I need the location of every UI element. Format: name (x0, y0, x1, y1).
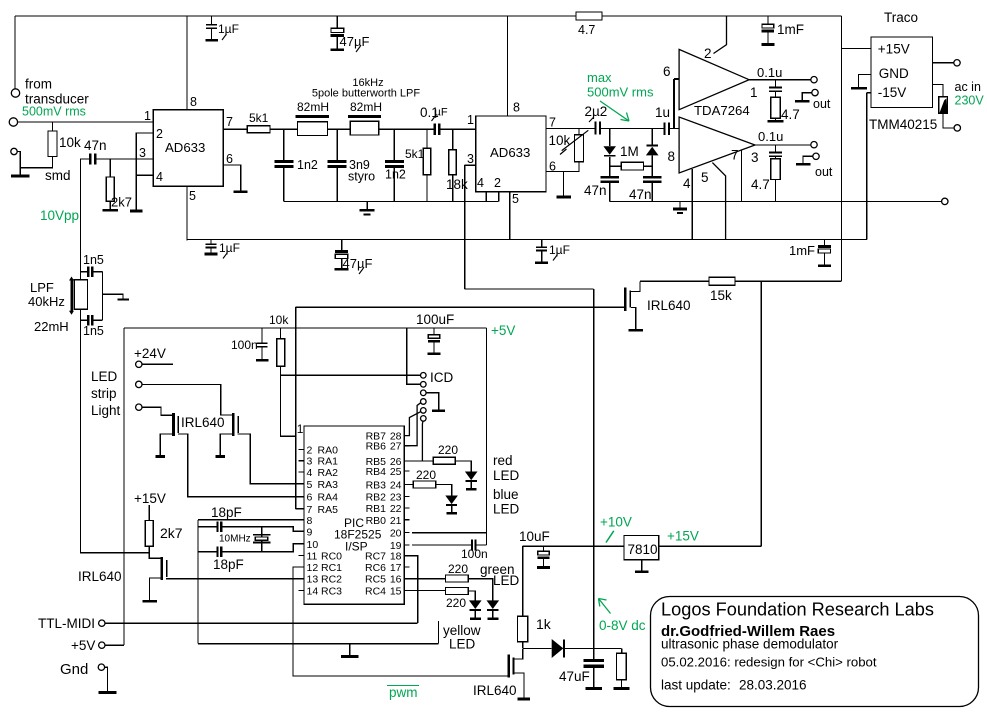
op-amp TDA7264 channel B (679, 117, 755, 173)
svg-text:4: 4 (683, 176, 691, 191)
terminal ground rail (942, 198, 948, 204)
svg-text:RC1: RC1 (321, 562, 342, 574)
pin 15 PIC right (404, 589, 409, 591)
svg-text:LED: LED (493, 502, 520, 517)
connector ICD pin6 (421, 416, 427, 422)
diode D1 demod (609, 129, 611, 147)
pin 4 PIC left (299, 471, 304, 473)
resistor pwm load (621, 648, 623, 653)
wire +15V to 7810 branch (760, 281, 762, 546)
svg-text:RB1: RB1 (366, 503, 387, 515)
svg-text:16: 16 (390, 574, 402, 586)
wire MCLR net line (296, 306, 624, 308)
svg-text:Logos Foundation Research Labs: Logos Foundation Research Labs (661, 600, 934, 620)
connector ICD pin2 (421, 382, 427, 388)
svg-text:10k: 10k (269, 313, 289, 327)
resistor 4.7 zobel 2 (771, 159, 780, 180)
pin 28 PIC right (404, 435, 409, 437)
svg-text:1mF: 1mF (777, 22, 804, 37)
pin 23 PIC right (404, 496, 409, 498)
capacitor 2u2 coupling (579, 128, 594, 130)
svg-text:100n: 100n (231, 338, 258, 352)
svg-text:IRL640: IRL640 (647, 298, 691, 313)
resistor 15k (709, 277, 735, 285)
svg-text:0.1u: 0.1u (758, 129, 783, 144)
terminal input 500mV (9, 118, 17, 126)
ground 7810 (641, 560, 643, 571)
wire 7810 out +15V (659, 545, 761, 547)
terminal LED strip 3 (136, 404, 142, 410)
capacitor 3n9 styro shunt (336, 129, 338, 160)
capacitor 1n2 shunt 1 (283, 129, 285, 160)
ground LPF40k tap (102, 294, 123, 298)
terminal ac in 1 (954, 60, 960, 66)
svg-text:7: 7 (549, 116, 556, 130)
svg-text:RC5: RC5 (365, 574, 386, 586)
svg-text:23: 23 (390, 492, 402, 504)
capacitor 100uF +5V (433, 328, 435, 335)
capacitor 1mF rail decoupling (823, 239, 825, 245)
svg-text:RA3: RA3 (318, 479, 339, 491)
connector ICD pin1 (421, 373, 427, 379)
wire +5V right edge (412, 328, 486, 545)
wire +15V top rail left segment (15, 15, 576, 17)
wire drain rail to 15k (640, 280, 709, 282)
svg-text:220: 220 (448, 562, 468, 576)
svg-text:2: 2 (307, 444, 313, 456)
inductor 82mH 1 (296, 115, 330, 118)
ground LPF rail (366, 201, 368, 209)
transistor Q5 IRL640 pwm (507, 655, 510, 678)
svg-text:8: 8 (513, 101, 520, 115)
wire demod node (601, 128, 663, 130)
capacitor 1uF rail decoupling 1 (210, 239, 212, 243)
resistor 220 blue LED (404, 483, 413, 485)
pin 20 PIC right (404, 532, 409, 534)
capacitor 47n demod 2 (643, 176, 662, 178)
svg-text:RC6: RC6 (365, 562, 386, 574)
wire AD633#1 pin5 to -15V rail (186, 186, 188, 240)
wire MCLR vertical (296, 307, 304, 509)
capacitor 100n Vss (412, 544, 471, 546)
pin 24 PIC right (404, 483, 409, 485)
svg-text:10MHz: 10MHz (219, 534, 251, 545)
svg-text:47n: 47n (584, 183, 607, 198)
wire Traco -15V drop (866, 93, 868, 240)
wire AD633#1 pin8 to +15V rail (186, 16, 188, 110)
wire Traco ac out right (933, 62, 954, 64)
svg-text:RC4: RC4 (365, 585, 386, 597)
terminal Gnd (98, 664, 104, 670)
svg-text:2k7: 2k7 (111, 195, 132, 210)
svg-text:100n: 100n (461, 547, 488, 561)
inductor 22mH LPF 40kHz (70, 279, 73, 312)
svg-text:ICD: ICD (430, 370, 454, 385)
terminal LED strip 2 (136, 381, 142, 387)
potentiometer 10k level (546, 129, 579, 135)
svg-text:11: 11 (307, 551, 318, 563)
svg-text:-15V: -15V (878, 85, 907, 100)
svg-text:RA1: RA1 (318, 456, 339, 468)
ground Traco GND (859, 74, 872, 87)
wire TDA pin6 input (674, 79, 679, 129)
svg-text:+15V: +15V (667, 529, 699, 544)
pin 2 PIC left (299, 448, 304, 450)
ground mid run (349, 644, 351, 655)
resistor 2k7 input bias (109, 159, 111, 177)
svg-text:+24V: +24V (134, 346, 166, 361)
pin 6 PIC left (299, 496, 304, 498)
svg-text:LED: LED (91, 369, 118, 384)
svg-text:22mH: 22mH (34, 319, 69, 334)
svg-text:17: 17 (390, 562, 402, 574)
capacitor 1uF top rail decoupling (211, 16, 213, 24)
pin 27 PIC right (404, 445, 409, 447)
pin 18 PIC right (404, 555, 409, 557)
pin 9 PIC left (299, 530, 304, 532)
svg-text:red: red (493, 453, 513, 468)
pin 3 PIC left (299, 460, 304, 462)
terminal +24V (136, 361, 142, 367)
led yellow (469, 600, 482, 609)
svg-text:1µF: 1µF (218, 22, 239, 36)
svg-text:1: 1 (750, 85, 758, 100)
svg-text:4: 4 (477, 176, 484, 190)
svg-text:500mV rms: 500mV rms (587, 85, 654, 100)
wire Traco -15V out (867, 92, 871, 94)
svg-text:100uF: 100uF (416, 312, 454, 327)
resistor 4.7 zobel 1 (771, 97, 780, 118)
resistor 5k1 shunt (426, 129, 428, 148)
svg-text:4: 4 (156, 170, 163, 184)
svg-text:IRL640: IRL640 (78, 569, 122, 584)
svg-text:2µ2: 2µ2 (585, 104, 608, 119)
svg-text:24: 24 (390, 479, 402, 491)
ground pin6 AD633#2 (556, 196, 571, 199)
resistor 10k pullup (280, 328, 282, 339)
svg-text:Traco: Traco (884, 10, 918, 25)
wire TDA out2 (755, 144, 811, 146)
svg-text:1mF: 1mF (789, 243, 815, 258)
svg-text:6: 6 (226, 152, 233, 166)
svg-text:LED: LED (449, 637, 476, 652)
wire -15V rail (187, 238, 867, 240)
pin 26 PIC right (404, 460, 409, 462)
svg-text:2: 2 (704, 46, 712, 61)
svg-text:20: 20 (390, 528, 402, 540)
svg-text:47uF: 47uF (559, 669, 590, 684)
svg-text:12: 12 (307, 562, 319, 574)
svg-text:AD633: AD633 (165, 140, 205, 155)
svg-text:2: 2 (494, 176, 501, 190)
svg-text:ultrasonic phase demodulator: ultrasonic phase demodulator (661, 637, 839, 652)
wire LPF main line (270, 128, 434, 130)
led blue (445, 496, 458, 505)
diode D2 demod (651, 129, 653, 145)
svg-text:8: 8 (307, 515, 313, 527)
ground AD633#1 pin6 (234, 191, 248, 194)
svg-text:15: 15 (390, 585, 402, 597)
svg-text:10k: 10k (549, 133, 571, 148)
svg-text:10: 10 (307, 539, 319, 551)
svg-text:1u: 1u (655, 105, 670, 120)
wire AD633#2 pin6 ground (546, 172, 564, 196)
svg-text:6: 6 (663, 64, 671, 79)
svg-text:RB0: RB0 (366, 515, 387, 527)
svg-text:10k: 10k (59, 135, 81, 150)
svg-text:TTL-MIDI: TTL-MIDI (38, 616, 95, 631)
capacitor 47uF top rail decoupling (336, 16, 338, 28)
svg-text:18: 18 (390, 551, 402, 563)
svg-text:styro: styro (348, 170, 375, 184)
crystal 10MHz (261, 527, 263, 552)
capacitor 1u coupling to TDA (663, 122, 665, 135)
capacitor 18pF 2 (198, 551, 216, 553)
svg-text:max: max (587, 70, 612, 85)
wire AD633#2 pin5 to -15V rail (509, 192, 511, 240)
terminal smd ground (11, 148, 17, 154)
power supply Traco TMM40215 (871, 37, 933, 108)
svg-text:4: 4 (307, 467, 313, 479)
svg-text:18pF: 18pF (213, 557, 244, 572)
wire LPF ground rail (284, 200, 499, 202)
led green (487, 600, 500, 609)
svg-text:µF: µF (435, 107, 448, 119)
capacitor 100n MCLR (261, 328, 263, 342)
resistor 5k1 series (247, 126, 270, 133)
wire ground rail right (610, 200, 942, 202)
diode D3 pwm (523, 647, 552, 649)
svg-text:230V: 230V (955, 94, 985, 108)
wire pin12 to pwm gate (293, 567, 507, 676)
ground 2k7 (103, 209, 118, 212)
svg-text:2k7: 2k7 (160, 525, 183, 541)
svg-text:18pF: 18pF (211, 505, 242, 520)
svg-text:15k: 15k (710, 288, 732, 303)
pin 11 PIC left (299, 555, 304, 557)
svg-text:13: 13 (307, 574, 319, 586)
svg-text:10uF: 10uF (519, 529, 550, 544)
capacitor 47n input (81, 158, 90, 160)
resistor 1k pwm (522, 546, 524, 616)
pin 19 PIC right (404, 544, 409, 546)
svg-text:LED: LED (493, 573, 520, 588)
svg-text:Light: Light (91, 403, 121, 418)
svg-text:5pole butterworth LPF: 5pole butterworth LPF (312, 88, 421, 100)
connector ICD pin4 (421, 399, 427, 405)
pin 5 PIC left (299, 483, 304, 485)
svg-text:40kHz: 40kHz (28, 294, 65, 309)
wire +15V drop from top rail (841, 16, 843, 281)
wire demod line to 0-8V node (465, 288, 594, 290)
capacitor 47n demod 1 (601, 176, 620, 178)
svg-text:0-8V dc: 0-8V dc (599, 618, 646, 633)
svg-text:1µF: 1µF (219, 241, 240, 255)
svg-text:5k1: 5k1 (405, 147, 425, 161)
wire crystal left drop (197, 520, 199, 644)
svg-text:from: from (25, 77, 52, 92)
wire ac in to fuse (933, 84, 944, 96)
wire TDA pin5 to -15V rail (712, 163, 725, 240)
pin 14 PIC left (299, 589, 304, 591)
resistor 4.7 in top rail (576, 12, 602, 20)
wire PIC pin8 Vss (198, 519, 304, 521)
svg-text:RC0: RC0 (321, 551, 342, 563)
resistor 18k shunt (452, 129, 454, 149)
wire TDA out1 (749, 79, 811, 81)
ground rail symbol (679, 201, 681, 207)
svg-text:RA4: RA4 (318, 492, 339, 504)
svg-text:RC7: RC7 (365, 551, 386, 563)
capacitor 0.1uF coupling (434, 124, 436, 136)
pin 16 PIC right (404, 578, 409, 580)
svg-text:TDA7264: TDA7264 (694, 103, 750, 118)
svg-text:+5V: +5V (71, 638, 95, 653)
ground zobel 1 (767, 120, 783, 123)
wire AD633#1 pin7 to 5k1 (223, 128, 247, 130)
connector ICD pin5 (421, 408, 427, 414)
arrow to demod node (600, 101, 629, 121)
ground Gnd terminal (98, 691, 116, 694)
svg-text:5: 5 (512, 192, 519, 206)
svg-text:strip: strip (91, 386, 117, 401)
svg-text:4.7: 4.7 (781, 107, 800, 122)
terminal +5V in (99, 642, 105, 648)
svg-text:3: 3 (307, 456, 313, 468)
wire input to AD633 pin1 (18, 121, 154, 123)
capacitor 0.1u zobel 2 (774, 145, 776, 152)
terminal out1 gnd (812, 89, 818, 95)
svg-text:7: 7 (731, 148, 739, 163)
inductor 82mH 2 (348, 115, 381, 118)
svg-text:21: 21 (390, 515, 402, 527)
capacitor 1n5 upper (81, 271, 88, 273)
svg-text:5k1: 5k1 (249, 111, 269, 125)
svg-text:2: 2 (156, 127, 163, 141)
svg-text:0.1u: 0.1u (757, 65, 782, 80)
wire AD633#2 pin3 down to demod line (464, 165, 466, 289)
svg-text:220: 220 (416, 468, 436, 482)
wire 1n5 link (101, 272, 103, 321)
wire Traco +15V to rail (842, 47, 872, 49)
pin 13 PIC left (299, 578, 304, 580)
svg-text:27: 27 (390, 441, 402, 453)
svg-text:82mH: 82mH (350, 100, 382, 114)
wire AD633#1 pins 2-4 tie (136, 133, 153, 210)
wire ICD MCLR (281, 374, 421, 376)
capacitor 1n2 shunt 2 (393, 129, 395, 160)
svg-text:RB4: RB4 (366, 466, 387, 478)
pin 7 PIC left (299, 508, 304, 510)
svg-text:47n: 47n (629, 187, 652, 202)
svg-text:RC2: RC2 (321, 574, 342, 586)
wire demod 0-8V vertical (593, 289, 595, 659)
wire +10V rail to 7810 (523, 545, 624, 547)
svg-text:Gnd: Gnd (60, 661, 88, 678)
svg-text:RA0: RA0 (318, 444, 339, 456)
svg-text:+10V: +10V (600, 515, 632, 530)
capacitor 47uF rail decoupling (341, 239, 343, 249)
svg-text:1n2: 1n2 (385, 168, 406, 182)
svg-text:3: 3 (751, 150, 759, 165)
svg-text:TMM40215: TMM40215 (869, 117, 937, 132)
wire pin8 gnd run (198, 621, 438, 644)
svg-text:1n5: 1n5 (83, 324, 104, 338)
svg-text:14: 14 (307, 585, 319, 597)
fuse ac in (939, 97, 948, 113)
svg-text:28.03.2016: 28.03.2016 (739, 678, 807, 693)
svg-text:10Vpp: 10Vpp (40, 208, 79, 223)
svg-text:IRL640: IRL640 (181, 415, 225, 430)
capacitor 10uF (543, 546, 545, 551)
svg-text:220: 220 (438, 443, 458, 457)
capacitor 18pF 1 (198, 526, 216, 528)
op-amp U1 AD633 multiplier (153, 110, 223, 186)
pin 17 PIC right (404, 566, 409, 568)
svg-text:7: 7 (226, 115, 233, 129)
svg-text:9: 9 (307, 526, 313, 538)
transistor Q1 IRL640 mute (594, 306, 624, 308)
resistor 220 green LED (404, 578, 445, 580)
svg-text:220: 220 (446, 596, 466, 610)
svg-text:1µF: 1µF (549, 243, 570, 257)
wire 0.1uF to AD633#2 pin1 (441, 128, 476, 130)
svg-text:+15V: +15V (134, 491, 166, 506)
wire TDA pin7 to ground rail (741, 150, 743, 201)
svg-text:1M: 1M (620, 144, 639, 159)
capacitor 1n5 lower (81, 319, 88, 321)
svg-text:1: 1 (467, 113, 474, 127)
svg-text:47n: 47n (84, 138, 107, 153)
op-amp TDA7264 channel A (679, 49, 749, 109)
svg-text:RC3: RC3 (321, 585, 342, 597)
svg-text:3: 3 (139, 146, 146, 160)
svg-text:ac in: ac in (955, 80, 981, 94)
svg-text:LED: LED (493, 468, 520, 483)
svg-text:82mH: 82mH (297, 100, 329, 114)
title box Logos Foundation (651, 597, 979, 707)
svg-text:blue: blue (493, 487, 519, 502)
resistor 2k7 midi (148, 505, 150, 520)
svg-text:47µF: 47µF (340, 34, 370, 49)
wire AD633#2 pins 4,2 notch (486, 192, 499, 202)
svg-text:1: 1 (297, 422, 304, 436)
svg-text:47µF: 47µF (343, 256, 373, 271)
capacitor 0.1u zobel 1 (774, 80, 776, 87)
ground smd (19, 168, 21, 175)
svg-text:pwm: pwm (389, 685, 418, 700)
svg-text:1n2: 1n2 (297, 158, 318, 172)
svg-text:1: 1 (144, 109, 151, 123)
resistor 1M demod (610, 165, 622, 167)
wire top-left drop to transducer terminal (14, 16, 16, 89)
svg-text:22: 22 (390, 503, 402, 515)
resistor 220 yellow LED (404, 589, 445, 591)
svg-text:+5V: +5V (491, 323, 515, 338)
wire TDA pin4 to -15V rail (691, 169, 693, 239)
svg-text:3: 3 (467, 152, 474, 166)
svg-text:5: 5 (701, 170, 709, 185)
svg-text:IRL640: IRL640 (473, 683, 517, 698)
terminal out1 hot (811, 77, 817, 83)
terminal out2 gnd (813, 153, 819, 159)
ground AD633#1 pins tie (130, 210, 143, 213)
terminal from transducer (11, 89, 19, 97)
svg-text:out: out (813, 97, 831, 111)
wire +5V frame (105, 328, 487, 645)
terminal out2 hot (811, 142, 817, 148)
svg-text:6: 6 (307, 492, 313, 504)
